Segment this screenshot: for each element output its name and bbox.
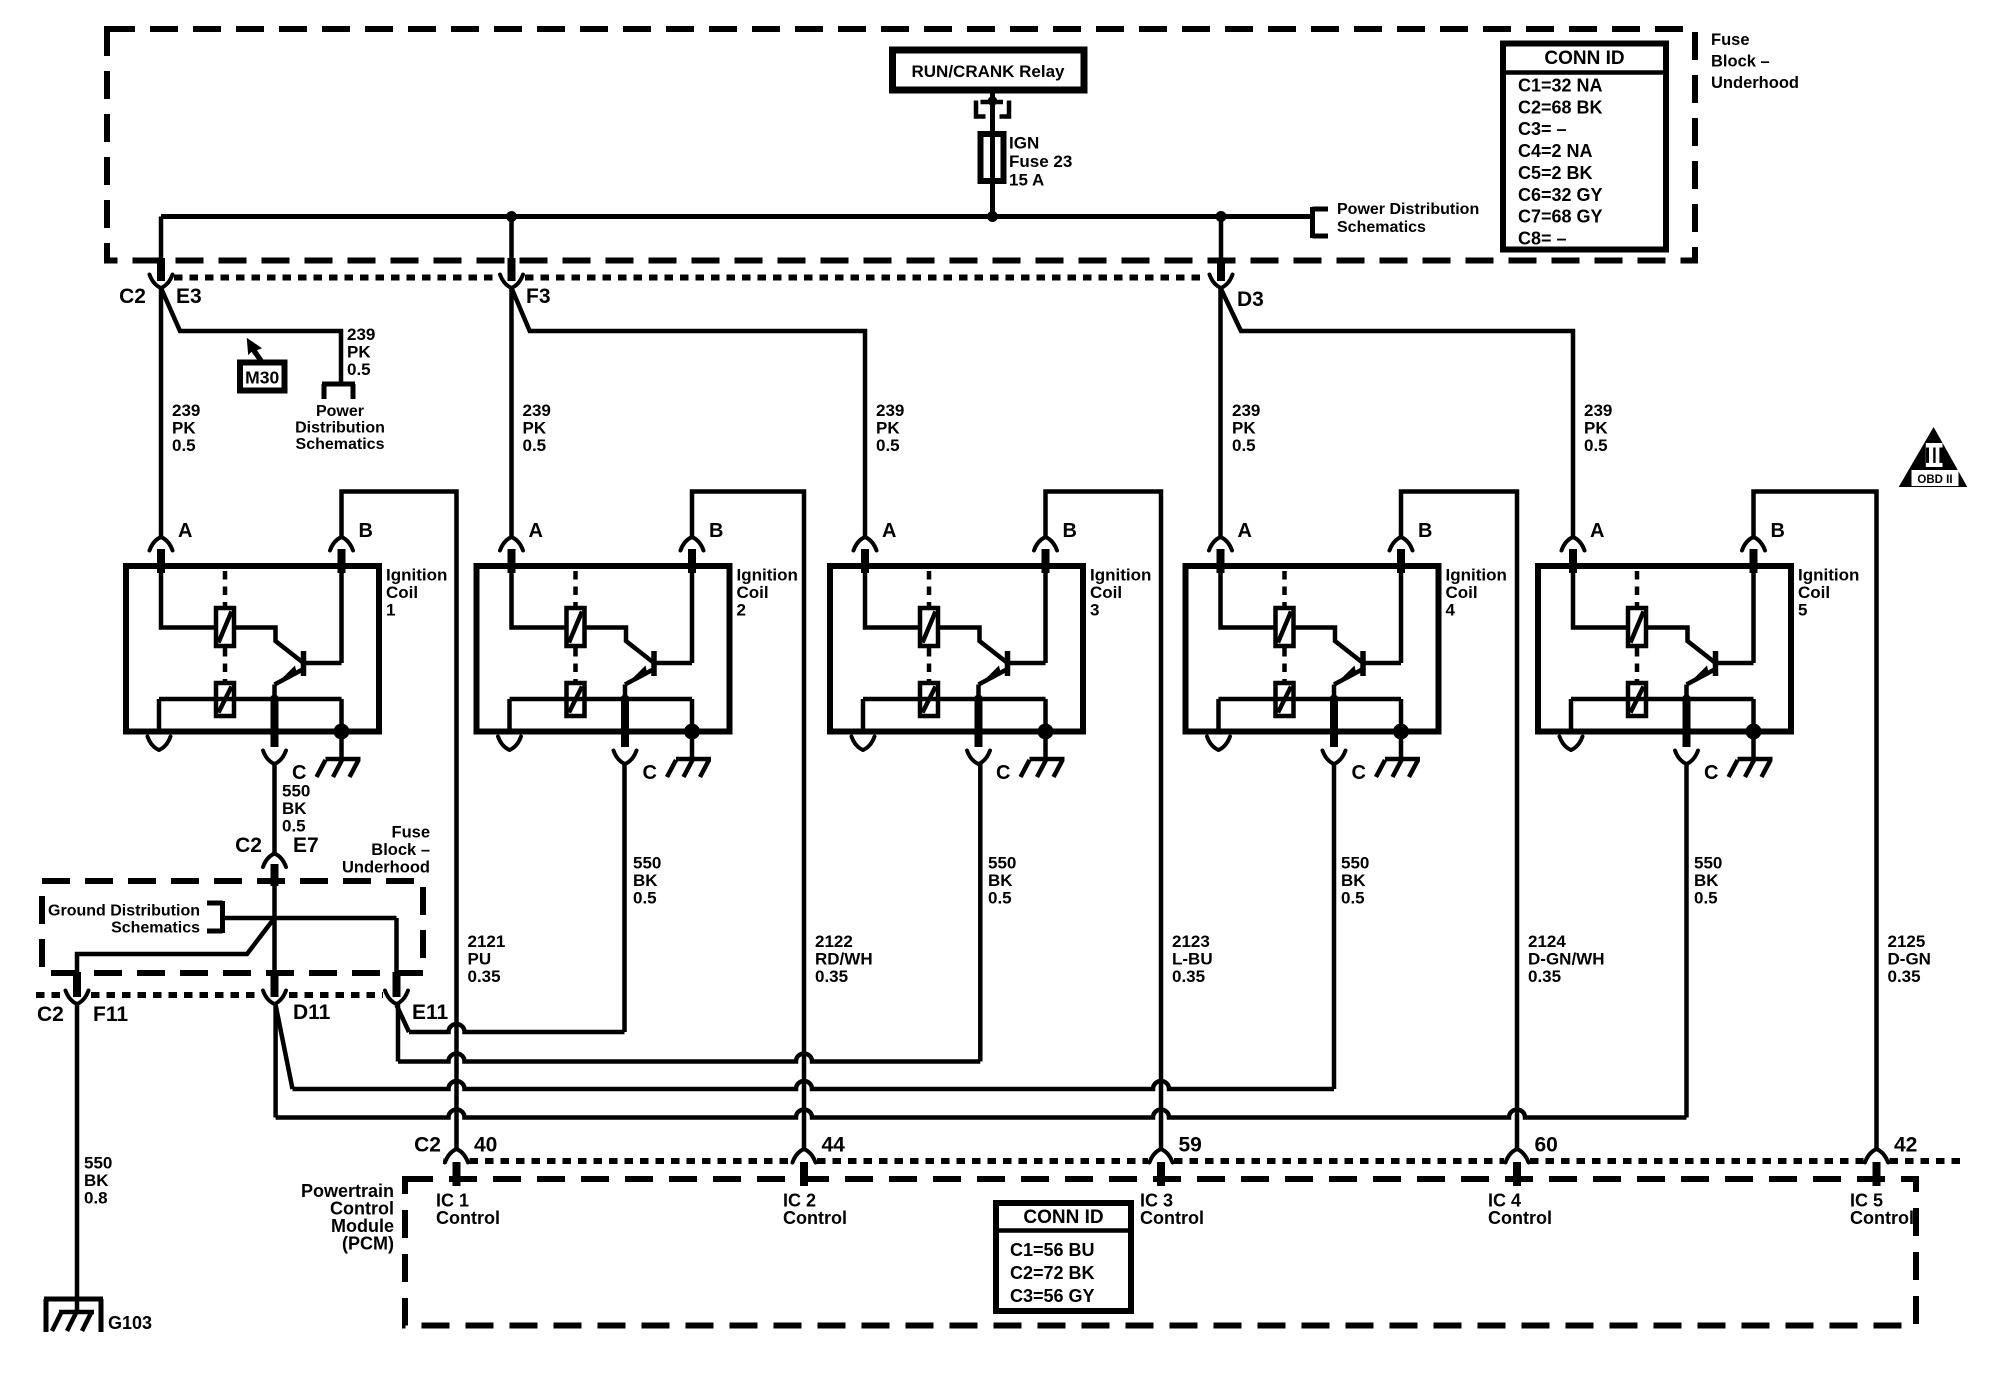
label: 239 PK 0.5 (branch) bbox=[347, 325, 375, 379]
connector: C2 pin F11 bbox=[37, 972, 128, 1026]
label: IC 1 Control bbox=[436, 1191, 500, 1229]
svg-text:Schematics: Schematics bbox=[1337, 219, 1426, 236]
coil 2 secondary winding bbox=[510, 683, 693, 716]
svg-text:PU: PU bbox=[468, 950, 492, 969]
svg-text:15 A: 15 A bbox=[1009, 171, 1044, 190]
svg-text:Coil: Coil bbox=[1446, 583, 1478, 602]
svg-text:550: 550 bbox=[633, 854, 661, 873]
label: 550 BK 0.5 (coil 5) bbox=[1694, 854, 1722, 908]
coil 4 pin A bbox=[1209, 520, 1252, 573]
svg-text:E3: E3 bbox=[176, 285, 202, 308]
coil 1 pin A bbox=[150, 520, 193, 573]
svg-text:Control: Control bbox=[783, 1208, 847, 1228]
wire: IC 3 control 2123 L-BU 0.35 (coil 3 B to PCM pin) bbox=[1046, 492, 1162, 1150]
svg-text:550: 550 bbox=[282, 782, 310, 801]
coil 4 pin C bbox=[1323, 699, 1366, 784]
svg-text:A: A bbox=[178, 520, 192, 542]
wire: branch to F11 / G103 bbox=[77, 918, 275, 972]
wire: IC 4 control 2124 D-GN/WH 0.35 (coil 4 B to PCM pin) bbox=[1401, 492, 1517, 1150]
svg-text:C2=68 BK: C2=68 BK bbox=[1518, 97, 1603, 117]
svg-text:Underhood: Underhood bbox=[1711, 74, 1799, 92]
svg-text:B: B bbox=[1063, 520, 1077, 542]
coil 3 pin B bbox=[1034, 520, 1077, 573]
svg-text:B: B bbox=[709, 520, 723, 542]
svg-text:Schematics: Schematics bbox=[296, 436, 385, 453]
wire: 239 PK branch from E3 to power distribution bbox=[161, 288, 341, 384]
ignition coil 3 bbox=[830, 520, 1151, 784]
label: 550 BK 0.5 (coil 2) bbox=[633, 854, 661, 908]
ground (coil 4) bbox=[1376, 732, 1420, 778]
svg-text:L-BU: L-BU bbox=[1172, 950, 1213, 969]
label: Fuse Block - Underhood (top right) bbox=[1711, 31, 1799, 92]
coil 3 wire: secondary return to ground junction bbox=[1043, 699, 1048, 732]
connector: PCM C2 pin 59 bbox=[1150, 1134, 1202, 1187]
coil 1 junction: emitter / secondary bbox=[270, 695, 279, 704]
coil 5 wire: primary winding to transistor bbox=[1646, 628, 1716, 664]
svg-text:239: 239 bbox=[1584, 401, 1612, 420]
svg-text:D-GN: D-GN bbox=[1888, 950, 1931, 969]
coil 1 wire: primary winding to transistor bbox=[234, 628, 304, 664]
svg-text:C8= –: C8= – bbox=[1518, 229, 1567, 249]
svg-text:PK: PK bbox=[523, 419, 547, 438]
svg-text:2124: 2124 bbox=[1528, 932, 1566, 951]
svg-text:Coil: Coil bbox=[737, 583, 769, 602]
svg-text:C5=2 BK: C5=2 BK bbox=[1518, 163, 1593, 183]
svg-text:Schematics: Schematics bbox=[111, 920, 200, 937]
connector: C2 pin F3 bbox=[500, 217, 551, 309]
component locator: M30 with cursor bbox=[240, 338, 285, 391]
coil 5 pin C bbox=[1675, 699, 1718, 784]
coil 3 secondary winding bbox=[863, 683, 1046, 716]
svg-text:Ignition: Ignition bbox=[737, 566, 798, 585]
svg-text:C2: C2 bbox=[414, 1134, 441, 1157]
coil 5 primary winding bbox=[1628, 608, 1646, 646]
svg-text:0.35: 0.35 bbox=[468, 967, 501, 986]
wire: IC 1 control 2121 PU 0.35 (coil 1 B to PCM pin) bbox=[342, 492, 457, 1150]
wire: IC 2 control 2122 RD/WH 0.35 (coil 2 B to PCM pin) bbox=[692, 492, 804, 1150]
svg-text:D-GN/WH: D-GN/WH bbox=[1528, 950, 1604, 969]
svg-text:0.5: 0.5 bbox=[523, 436, 547, 455]
coil 5 wire: A feed to primary winding bbox=[1573, 566, 1628, 628]
coil 4 box bbox=[1186, 566, 1439, 732]
coil 3 box bbox=[830, 566, 1083, 732]
svg-text:550: 550 bbox=[988, 854, 1016, 873]
svg-text:0.35: 0.35 bbox=[1528, 967, 1561, 986]
svg-text:4: 4 bbox=[1446, 601, 1456, 620]
svg-text:C1=56 BU: C1=56 BU bbox=[1010, 1240, 1095, 1260]
connector: PCM C2 pin 42 bbox=[1865, 1134, 1917, 1187]
coil 3 spark output pin bbox=[852, 699, 875, 750]
label: Ignition Coil 3 bbox=[1090, 566, 1151, 620]
svg-text:C2: C2 bbox=[235, 834, 262, 857]
svg-text:2123: 2123 bbox=[1172, 932, 1210, 951]
symbol: OBD II bbox=[1899, 427, 1968, 487]
label: 550 BK 0.8 bbox=[84, 1154, 112, 1208]
svg-text:C: C bbox=[1352, 762, 1366, 784]
label: 2125 D-GN 0.35 bbox=[1888, 932, 1931, 986]
coil 1 secondary winding bbox=[159, 683, 342, 716]
label: 239 PK 0.5 (coil 3) bbox=[876, 401, 904, 455]
coil 3 pin A bbox=[854, 520, 897, 573]
coil 3 junction: emitter / secondary bbox=[974, 695, 983, 704]
svg-text:Distribution: Distribution bbox=[295, 420, 385, 437]
coil 2 wire: primary winding to transistor bbox=[585, 628, 655, 664]
connector: C2 pin E3 bbox=[119, 217, 202, 309]
svg-text:0.5: 0.5 bbox=[988, 889, 1012, 908]
ignition coil 4 bbox=[1186, 520, 1507, 784]
svg-text:BK: BK bbox=[633, 871, 658, 890]
svg-text:Ground Distribution: Ground Distribution bbox=[48, 903, 200, 920]
svg-text:0.5: 0.5 bbox=[1694, 889, 1718, 908]
wire: coil 1 ground through fuse block to D11 bbox=[272, 886, 277, 972]
coil 1 pin B bbox=[330, 520, 373, 573]
svg-text:0.35: 0.35 bbox=[1172, 967, 1205, 986]
svg-text:Coil: Coil bbox=[386, 583, 418, 602]
coil 2 core (dashed) bbox=[573, 571, 578, 681]
powertrain control module enclosure (dashed) bbox=[405, 1179, 1916, 1326]
PCM connector face C2 (dotted) bbox=[443, 1158, 1967, 1164]
svg-text:60: 60 bbox=[1535, 1134, 1558, 1157]
coil 1 wire: B pin to transistor base bbox=[339, 566, 344, 663]
svg-text:239: 239 bbox=[1232, 401, 1260, 420]
svg-text:E7: E7 bbox=[293, 834, 319, 857]
label: IC 4 Control bbox=[1488, 1191, 1552, 1229]
connector: C2 pin D11 bbox=[263, 972, 331, 1024]
svg-text:CONN ID: CONN ID bbox=[1544, 48, 1624, 69]
svg-text:239: 239 bbox=[347, 325, 375, 344]
coil 3 pin C bbox=[967, 699, 1010, 784]
coil 2 transistor Q2 bbox=[625, 651, 692, 699]
svg-text:239: 239 bbox=[523, 401, 551, 420]
coil 2 wire: B pin to transistor base bbox=[690, 566, 695, 663]
ground (coil 5) bbox=[1729, 732, 1773, 778]
coil 5 core (dashed) bbox=[1635, 571, 1640, 681]
svg-text:C: C bbox=[996, 762, 1010, 784]
ignition coil 2 bbox=[477, 520, 798, 784]
label: 2121 PU 0.35 bbox=[468, 932, 506, 986]
svg-text:PK: PK bbox=[1232, 419, 1256, 438]
wire: IC 5 control 2125 D-GN 0.35 (coil 5 B to PCM pin) bbox=[1754, 492, 1877, 1150]
coil 2 wire: secondary return to ground junction bbox=[690, 699, 695, 732]
label: 550 BK 0.5 (coil 3) bbox=[988, 854, 1016, 908]
coil 1 wire: secondary return to ground junction bbox=[339, 699, 344, 732]
svg-text:CONN ID: CONN ID bbox=[1023, 1207, 1103, 1228]
relay pin terminal bbox=[976, 96, 1009, 116]
label: 2123 L-BU 0.35 bbox=[1172, 932, 1213, 986]
ignition coil 1 bbox=[126, 520, 447, 784]
coil 2 box bbox=[477, 566, 730, 732]
svg-text:G103: G103 bbox=[108, 1313, 152, 1333]
label: IC 5 Control bbox=[1850, 1191, 1914, 1229]
coil 5 secondary winding bbox=[1571, 683, 1754, 716]
svg-text:0.35: 0.35 bbox=[1888, 967, 1921, 986]
wire: ground bus inside fuse block bbox=[223, 916, 397, 921]
svg-text:A: A bbox=[882, 520, 896, 542]
label: 550 BK 0.5 (coil 1) bbox=[282, 782, 310, 836]
svg-text:Control: Control bbox=[1850, 1208, 1914, 1228]
svg-text:RD/WH: RD/WH bbox=[815, 950, 873, 969]
svg-text:0.5: 0.5 bbox=[347, 360, 371, 379]
svg-text:Power Distribution: Power Distribution bbox=[1337, 201, 1479, 218]
coil 1 wire: A feed to primary winding bbox=[161, 566, 216, 628]
fuse block - underhood enclosure (dashed) bbox=[107, 29, 1695, 261]
connector: PCM C2 pin 44 bbox=[793, 1134, 846, 1187]
coil 5 pin B bbox=[1742, 520, 1785, 573]
svg-text:Ignition: Ignition bbox=[386, 566, 447, 585]
svg-text:1: 1 bbox=[386, 601, 395, 620]
connector: PCM C2 pin 60 bbox=[1506, 1134, 1558, 1187]
fuse block - underhood ground enclosure (dashed) bbox=[42, 881, 423, 973]
wire: relay output to ignition feed bus bbox=[990, 90, 995, 217]
coil 5 transistor Q5 bbox=[1687, 651, 1754, 699]
coil 3 primary winding bbox=[920, 608, 938, 646]
svg-text:Fuse 23: Fuse 23 bbox=[1009, 152, 1072, 171]
coil 4 transistor Q4 bbox=[1334, 651, 1401, 699]
svg-text:OBD II: OBD II bbox=[1917, 474, 1952, 486]
svg-text:C2: C2 bbox=[37, 1003, 64, 1026]
svg-text:B: B bbox=[359, 520, 373, 542]
svg-text:BK: BK bbox=[1341, 871, 1366, 890]
svg-text:F11: F11 bbox=[93, 1003, 128, 1026]
pigtail: ground distribution schematics bbox=[48, 901, 222, 937]
label: 239 PK 0.5 (coil 1) bbox=[172, 401, 200, 455]
fuse: IGN Fuse 23 15 A bbox=[981, 134, 1073, 190]
coil 1 pin C bbox=[263, 699, 306, 784]
svg-text:PK: PK bbox=[172, 419, 196, 438]
svg-text:M30: M30 bbox=[245, 368, 279, 388]
svg-text:0.8: 0.8 bbox=[84, 1189, 108, 1208]
label: 239 PK 0.5 (coil 4) bbox=[1232, 401, 1260, 455]
coil 2 pin C bbox=[614, 699, 657, 784]
coil 4 spark output pin bbox=[1207, 699, 1230, 750]
label: Ignition Coil 1 bbox=[386, 566, 447, 620]
svg-text:40: 40 bbox=[474, 1134, 497, 1157]
svg-text:Power: Power bbox=[316, 403, 364, 420]
coil 2 primary winding bbox=[567, 608, 585, 646]
coil 2 pin A bbox=[500, 520, 543, 573]
svg-text:F3: F3 bbox=[526, 285, 551, 308]
svg-text:0.5: 0.5 bbox=[876, 436, 900, 455]
svg-text:44: 44 bbox=[822, 1134, 846, 1157]
wire: 239 PK 0.5 from D3 to coil 5 pin A bbox=[1221, 288, 1574, 537]
svg-text:Ignition: Ignition bbox=[1798, 566, 1859, 585]
coil 5 box bbox=[1538, 566, 1791, 732]
relay: RUN/CRANK Relay bbox=[893, 50, 1085, 90]
connector: C2 pin E11 bbox=[385, 972, 449, 1024]
coil 1 spark output pin bbox=[148, 699, 171, 750]
coil 4 core (dashed) bbox=[1282, 571, 1287, 681]
ground (coil 3) bbox=[1021, 732, 1065, 778]
svg-text:Fuse: Fuse bbox=[391, 824, 430, 842]
coil 1 junction: internal ground bbox=[334, 724, 350, 740]
coil 3 wire: A feed to primary winding bbox=[865, 566, 920, 628]
connector table: CONN ID (PCM) bbox=[996, 1203, 1131, 1311]
svg-text:550: 550 bbox=[84, 1154, 112, 1173]
svg-text:IGN: IGN bbox=[1009, 134, 1039, 153]
svg-text:A: A bbox=[1590, 520, 1604, 542]
svg-text:C7=68 GY: C7=68 GY bbox=[1518, 207, 1603, 227]
wire: E11 drop inside fuse block bbox=[394, 918, 399, 972]
coil 3 core (dashed) bbox=[927, 571, 932, 681]
label: 239 PK 0.5 (coil 5) bbox=[1584, 401, 1612, 455]
svg-text:550: 550 bbox=[1341, 854, 1369, 873]
svg-text:C4=2 NA: C4=2 NA bbox=[1518, 141, 1593, 161]
coil 4 wire: A feed to primary winding bbox=[1221, 566, 1276, 628]
coil 3 wire: B pin to transistor base bbox=[1043, 566, 1048, 663]
coil 4 pin B bbox=[1390, 520, 1433, 573]
label: 2122 RD/WH 0.35 bbox=[815, 932, 873, 986]
ground: G103 bbox=[44, 1299, 152, 1333]
svg-text:Control: Control bbox=[1140, 1208, 1204, 1228]
coil 4 wire: secondary return to ground junction bbox=[1399, 699, 1404, 732]
svg-text:42: 42 bbox=[1894, 1134, 1917, 1157]
svg-text:RUN/CRANK Relay: RUN/CRANK Relay bbox=[911, 62, 1065, 81]
svg-text:PK: PK bbox=[347, 343, 371, 362]
label: 239 PK 0.5 (coil 2) bbox=[523, 401, 551, 455]
wire: 550 BK 0.5 coil 1 C to E7/D11 bbox=[272, 764, 277, 854]
wire: 550 BK 0.5 coil 4 C to D11 (line c) bbox=[276, 764, 1334, 1089]
svg-text:Coil: Coil bbox=[1798, 583, 1830, 602]
coil 2 spark output pin bbox=[498, 699, 521, 750]
wire: 550 BK 0.8 F11 to G103 bbox=[75, 1004, 80, 1312]
wire: 239 PK 0.5 to coil 1 pin A bbox=[159, 288, 164, 537]
coil 2 wire: A feed to primary winding bbox=[512, 566, 567, 628]
svg-text:0.5: 0.5 bbox=[1232, 436, 1256, 455]
svg-text:0.5: 0.5 bbox=[633, 889, 657, 908]
svg-text:(PCM): (PCM) bbox=[342, 1234, 394, 1254]
svg-text:PK: PK bbox=[1584, 419, 1608, 438]
svg-text:D3: D3 bbox=[1237, 288, 1264, 311]
label: Fuse Block - Underhood (middle) bbox=[342, 824, 430, 877]
svg-text:239: 239 bbox=[172, 401, 200, 420]
coil 5 junction: emitter / secondary bbox=[1682, 695, 1691, 704]
coil 5 pin A bbox=[1562, 520, 1605, 573]
svg-text:0.5: 0.5 bbox=[1584, 436, 1608, 455]
ground (coil 1) bbox=[317, 732, 361, 778]
svg-text:Control: Control bbox=[436, 1208, 500, 1228]
svg-text:BK: BK bbox=[282, 799, 307, 818]
svg-text:A: A bbox=[1238, 520, 1252, 542]
connector: PCM C2 pin 40 bbox=[414, 1134, 497, 1187]
junction: bus / fuse bbox=[987, 211, 998, 222]
connector: C2 pin D3 bbox=[1210, 217, 1264, 312]
svg-text:D11: D11 bbox=[293, 1001, 331, 1024]
svg-text:C: C bbox=[643, 762, 657, 784]
svg-text:Ignition: Ignition bbox=[1090, 566, 1151, 585]
wire: 550 BK 0.5 coil 3 C to E11 (line b) bbox=[398, 764, 980, 1062]
svg-text:BK: BK bbox=[988, 871, 1013, 890]
wire: 239 PK 0.5 from F3 to coil 3 pin A bbox=[512, 288, 866, 537]
svg-text:0.5: 0.5 bbox=[282, 817, 306, 836]
wire: ignition feed bus (circuit 239) bbox=[161, 214, 1311, 219]
svg-text:B: B bbox=[1771, 520, 1785, 542]
svg-text:Block –: Block – bbox=[371, 841, 430, 859]
coil 4 wire: B pin to transistor base bbox=[1399, 566, 1404, 663]
svg-text:A: A bbox=[529, 520, 543, 542]
svg-text:C2: C2 bbox=[119, 285, 146, 308]
ignition coil 5 bbox=[1538, 520, 1859, 784]
ground (coil 2) bbox=[667, 732, 711, 778]
svg-text:Underhood: Underhood bbox=[342, 859, 430, 877]
coil 2 pin B bbox=[681, 520, 724, 573]
wire: 239 PK 0.5 to coil 2 pin A bbox=[509, 288, 514, 537]
label: Ignition Coil 5 bbox=[1798, 566, 1859, 620]
svg-text:3: 3 bbox=[1090, 601, 1099, 620]
svg-text:Block –: Block – bbox=[1711, 53, 1770, 71]
connector face: fuse block C2 (dotted) bbox=[174, 275, 1206, 281]
coil 5 junction: internal ground bbox=[1746, 724, 1762, 740]
svg-text:0.5: 0.5 bbox=[172, 436, 196, 455]
coil 4 secondary winding bbox=[1219, 683, 1402, 716]
svg-text:B: B bbox=[1418, 520, 1432, 542]
coil 5 wire: B pin to transistor base bbox=[1751, 566, 1756, 663]
label: Ignition Coil 2 bbox=[737, 566, 798, 620]
svg-text:Control: Control bbox=[1488, 1208, 1552, 1228]
wire: 550 BK 0.5 coil 2 C to E11 (line a) bbox=[397, 764, 625, 1032]
svg-text:2121: 2121 bbox=[468, 932, 506, 951]
coil 1 primary winding bbox=[216, 608, 234, 646]
svg-text:Coil: Coil bbox=[1090, 583, 1122, 602]
label: 550 BK 0.5 (coil 4) bbox=[1341, 854, 1369, 908]
svg-text:C6=32 GY: C6=32 GY bbox=[1518, 185, 1603, 205]
svg-text:2122: 2122 bbox=[815, 932, 853, 951]
svg-text:550: 550 bbox=[1694, 854, 1722, 873]
label: 2124 D-GN/WH 0.35 bbox=[1528, 932, 1604, 986]
svg-text:BK: BK bbox=[1694, 871, 1719, 890]
coil 4 junction: internal ground bbox=[1393, 724, 1409, 740]
svg-text:C1=32 NA: C1=32 NA bbox=[1518, 76, 1603, 96]
junction: bus / D3 drop bbox=[1216, 211, 1227, 222]
pigtail: power distribution schematics (right) bbox=[1313, 201, 1480, 238]
label: Powertrain Control Module (PCM) bbox=[301, 1181, 394, 1254]
svg-text:0.35: 0.35 bbox=[815, 967, 848, 986]
svg-text:BK: BK bbox=[84, 1171, 109, 1190]
svg-text:C3= –: C3= – bbox=[1518, 119, 1567, 139]
coil 1 core (dashed) bbox=[223, 571, 228, 681]
svg-text:Ignition: Ignition bbox=[1446, 566, 1507, 585]
svg-text:PK: PK bbox=[876, 419, 900, 438]
wire: 550 BK 0.5 coil 5 C to D11 (line d) bbox=[276, 764, 1687, 1118]
svg-text:C2=72 BK: C2=72 BK bbox=[1010, 1263, 1095, 1283]
coil 3 junction: internal ground bbox=[1038, 724, 1054, 740]
svg-text:E11: E11 bbox=[412, 1001, 449, 1024]
svg-text:Fuse: Fuse bbox=[1711, 31, 1750, 49]
pigtail: power distribution schematics (branch) bbox=[295, 384, 385, 453]
label: IC 2 Control bbox=[783, 1191, 847, 1229]
coil 2 junction: internal ground bbox=[684, 724, 700, 740]
coil 3 transistor Q3 bbox=[979, 651, 1046, 699]
junction: bus / F3 drop bbox=[506, 211, 517, 222]
connector: C2 pin E7 bbox=[235, 834, 319, 886]
coil 4 primary winding bbox=[1276, 608, 1294, 646]
label: IC 3 Control bbox=[1140, 1191, 1204, 1229]
svg-text:59: 59 bbox=[1179, 1134, 1202, 1157]
svg-text:C3=56 GY: C3=56 GY bbox=[1010, 1286, 1095, 1306]
coil 5 spark output pin bbox=[1560, 699, 1583, 750]
coil 4 wire: primary winding to transistor bbox=[1294, 628, 1364, 664]
svg-text:5: 5 bbox=[1798, 601, 1807, 620]
svg-text:0.5: 0.5 bbox=[1341, 889, 1365, 908]
coil 2 junction: emitter / secondary bbox=[621, 695, 630, 704]
connector face: fuse block C2 lower (dotted) bbox=[36, 992, 383, 998]
coil 1 box bbox=[126, 566, 379, 732]
coil 1 transistor Q1 bbox=[275, 651, 342, 699]
svg-text:239: 239 bbox=[876, 401, 904, 420]
svg-text:2: 2 bbox=[737, 601, 746, 620]
svg-text:2125: 2125 bbox=[1888, 932, 1926, 951]
svg-text:C: C bbox=[1704, 762, 1718, 784]
connector table: CONN ID (fuse block underhood) bbox=[1503, 44, 1666, 250]
